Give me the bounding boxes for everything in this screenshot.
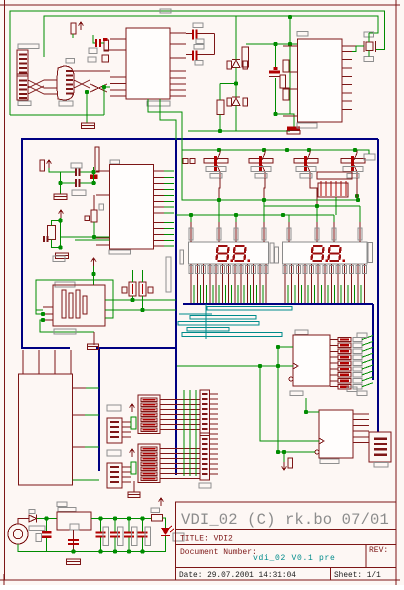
component label T3b: [300, 174, 312, 179]
display DIS1 top pin 2: [218, 222, 220, 242]
component label above C1: [193, 23, 203, 28]
wire green vert c3: [275, 44, 277, 67]
component pad right end: [364, 154, 375, 160]
page border corner overshoot top-left: [0, 4, 10, 6]
display DIS1 top pin 4: [263, 222, 265, 242]
transformer TR1 body: [19, 374, 73, 485]
display DIS1 dp 2: [248, 260, 251, 263]
connector SV2 label: [107, 450, 121, 456]
wire display DIS2 comb green 6: [320, 285, 322, 303]
node junction zener mid: [234, 81, 238, 85]
ic IC3 left pin 3: [96, 237, 110, 239]
connector SV3 bars: [374, 438, 387, 440]
wire RP2 row 6: [160, 473, 200, 475]
wire bus entry 1: [362, 336, 373, 340]
component pads far left: [183, 159, 188, 164]
node junction CF3 top: [127, 516, 131, 520]
node junction da6: [315, 204, 319, 208]
ic U1 right pin 5: [170, 77, 186, 79]
component pad out 3: [353, 349, 362, 353]
node junction rst2: [58, 245, 62, 249]
resistor R16 vertical: [217, 100, 224, 115]
wire top inner green line: [44, 16, 378, 57]
wire RP2 row 1: [160, 448, 200, 450]
header JP1 bars lower: [202, 438, 208, 440]
capacitor C2 plates: [192, 51, 194, 61]
bus teal box D: [187, 328, 229, 332]
transistor T2: [259, 150, 265, 178]
transistor T1: [214, 150, 220, 178]
display DIS1 bottom pin 6: [221, 264, 223, 303]
ic IC3 right pin 6: [154, 200, 165, 202]
resistor R12 vertical: [91, 210, 97, 222]
node junction rail: [218, 129, 222, 133]
ic IC4 out pin 5: [330, 362, 338, 364]
node junction clk start: [258, 364, 262, 368]
crystal Q2 pad above: [364, 32, 374, 37]
svg-text:VDI_02 (C) rk.bo 07/01: VDI_02 (C) rk.bo 07/01: [181, 511, 389, 529]
component U2 pin bar 2: [66, 75, 73, 77]
component label T2a: [251, 167, 271, 172]
display DIS2 bottom pin 6: [317, 264, 319, 303]
ic U3 right pin 2: [342, 59, 352, 61]
connector X1 label below: [18, 101, 31, 106]
connector SL1 inner bar 2: [69, 293, 73, 318]
ic IC3 label above: [110, 160, 120, 164]
connector SV2 bars: [110, 466, 119, 468]
connector X1 pin bar 7: [19, 84, 27, 86]
ic IC3 right pin 9: [154, 222, 165, 224]
node junction CF4 bottom: [140, 549, 144, 553]
wire R16 bottom: [219, 115, 221, 132]
resistor RN pack 4: [338, 355, 351, 359]
connector SV2 body: [107, 463, 122, 488]
resistor pack RP1 body: [138, 395, 160, 434]
ic IC3 right pin 3: [154, 183, 165, 185]
component label T1a: [206, 167, 226, 172]
node junction CF4 top: [140, 516, 144, 520]
diode D3 zener: [232, 59, 240, 61]
wire display DIS2 comb green 4: [307, 285, 309, 303]
component R11 vertical: [48, 226, 56, 240]
ic U1 right pin 3: [170, 57, 186, 59]
node junction pw2: [71, 549, 75, 553]
display side bar right: [368, 243, 373, 263]
wire display DIS1 comb green 4: [212, 285, 214, 303]
resistor RN pack 2: [338, 343, 351, 347]
wire RP1 row 2: [160, 404, 200, 406]
component U2 body: [57, 66, 74, 100]
capacitor C4 plates: [75, 168, 77, 176]
resistor pack RP2 r2: [141, 452, 157, 455]
node junction c3 bottom: [273, 112, 277, 116]
ic U1 left pin 4: [110, 83, 126, 85]
display DIS2 bottom pin 3: [297, 264, 299, 303]
frame blue right edge: [377, 139, 379, 432]
wire SV2 pins: [122, 466, 131, 468]
svg-text:TITLE: VDI2: TITLE: VDI2: [180, 535, 233, 544]
wire display DIS1 comb green 3: [206, 285, 208, 303]
ic U3 left pin 4: [283, 115, 298, 117]
connector SV1 body: [107, 418, 122, 443]
node junction q1a: [58, 181, 62, 185]
header JP1 bars: [202, 393, 208, 395]
regulator IC2 inner: [70, 524, 79, 530]
wire top outer green loop: [10, 11, 385, 115]
transistor T3: [304, 150, 310, 178]
wire RP2 row 7: [160, 478, 200, 480]
display DIS2 bottom pin 9: [337, 264, 339, 303]
wire bus entry 2: [362, 341, 373, 345]
component label above C2: [194, 45, 204, 50]
display DIS1 bottom pin 12: [259, 264, 261, 303]
regulator IC2 body: [57, 512, 91, 530]
wire g1 top: [18, 519, 29, 525]
node junction r12b: [92, 235, 96, 239]
resistor R15 label: [151, 508, 160, 513]
ic U1 right pin 6: [170, 83, 186, 85]
display DIS1 bottom pin 9: [240, 264, 242, 303]
wire display DIS2 comb green 5: [314, 285, 316, 303]
wire display DIS1 comb green 10: [249, 285, 251, 303]
resistor pack RP2 r1: [141, 447, 157, 450]
display DIS1 bottom pin 5: [215, 264, 217, 303]
resistor pack RP2 r4: [141, 462, 157, 465]
node junction r14: [140, 308, 144, 312]
connector SL1 label: [55, 282, 75, 287]
ic U3 right pin 6: [342, 92, 352, 94]
wire green top h: [246, 43, 297, 45]
component U2 pin bar 4: [66, 84, 73, 86]
display DIS2 bottom pin 1: [284, 264, 286, 303]
header JP1 body: [200, 390, 210, 480]
wire display DIS1 comb green 2: [199, 285, 201, 303]
ic IC3 right pin 5: [154, 194, 165, 196]
wire display DIS2 comb green 10: [347, 285, 349, 303]
wire crystal nets: [61, 171, 76, 173]
wire r13 top: [132, 270, 134, 282]
page border corner overshoot top-right: [390, 4, 400, 6]
wire reg gnd: [73, 530, 75, 552]
ic IC3 right pin 10: [154, 228, 165, 230]
resistor R18 vertical: [71, 23, 76, 34]
resistor R14 vertical: [139, 282, 146, 296]
title block line under big title: [176, 529, 397, 531]
crystal Q2 body: [366, 42, 373, 51]
display DIS1 bottom pin 2: [196, 264, 198, 303]
component label q1b: [72, 190, 86, 196]
node junction da3: [234, 213, 238, 217]
display DIS2 bottom pin 5: [311, 264, 313, 303]
node junction rail T3: [285, 148, 289, 152]
wire pad right: [355, 150, 369, 154]
resistor pack RP2 r7: [141, 477, 157, 480]
ic U1 right pin 7: [170, 89, 186, 91]
display DIS1 bottom pin 8: [234, 264, 236, 303]
ic IC4 inv bubble: [289, 377, 293, 381]
frame blue left box: [22, 139, 175, 348]
connector SV3 label: [374, 463, 388, 468]
ground GND6: [88, 344, 99, 350]
component R19 small square: [103, 38, 108, 41]
component label box: [89, 48, 97, 54]
ic IC3 right pin 8: [154, 212, 165, 214]
wire RP1 row 7: [160, 429, 200, 431]
connector SL1 label top: [53, 256, 65, 262]
ic U3 left pin 1: [283, 45, 298, 47]
bus teal box C: [178, 322, 259, 326]
capacitor C3: [269, 71, 280, 74]
bus teal vertical: [205, 304, 207, 339]
component pad out 6: [353, 367, 362, 371]
component CF1 label: [103, 527, 109, 546]
component U2 pin bar 6: [66, 93, 73, 95]
wire CF4: [142, 519, 144, 532]
wire CF2: [114, 519, 116, 532]
component label box2: [88, 57, 96, 62]
ic U3 right pin 1: [342, 51, 352, 53]
node junction q1b: [91, 170, 95, 174]
wire crossover b: [28, 80, 44, 88]
bus teal box B: [190, 316, 256, 320]
wire C1 row: [186, 33, 192, 35]
wire green rails mid: [61, 236, 110, 238]
capacitor C1 plates: [192, 30, 194, 40]
component pad out 5: [353, 361, 362, 365]
wire green to IC4 b: [177, 365, 293, 367]
wire display DIS1 comb green 5: [218, 285, 220, 303]
transformer TR1 pin right 0: [73, 387, 87, 389]
frame blue top right edge: [175, 138, 378, 140]
wire bus entry 9: [362, 383, 373, 387]
ic IC3 label below: [109, 250, 131, 254]
wire RP2 row 4: [160, 463, 200, 465]
resistor RB3: [294, 159, 318, 164]
transistor T4: [351, 150, 357, 178]
wire crystal connect: [368, 33, 370, 42]
connector X1 label: [18, 44, 39, 49]
wire U2b to U1: [104, 86, 110, 88]
resistor pack RP1 r5: [141, 418, 157, 421]
arrow gnd ic5: [282, 462, 287, 470]
connector X1 pin bar 6: [19, 80, 27, 82]
ground GND7: [128, 492, 140, 498]
ic IC4 out pin 4: [330, 356, 338, 358]
display side bar left: [180, 250, 184, 264]
resistor R17: [104, 40, 109, 51]
display side bar mid1: [270, 243, 274, 263]
ic IC5 right pin 4: [353, 430, 369, 432]
component pad D4 right: [243, 98, 248, 106]
wire display DIS2 comb green 1: [287, 285, 289, 303]
wire crossover c: [28, 86, 44, 94]
node junction da4: [262, 198, 266, 202]
wire tr down 2: [289, 44, 291, 114]
wire RP1 row 5: [160, 419, 200, 421]
svg-text:Date: 29.07.2001 14:31:04: Date: 29.07.2001 14:31:04: [179, 572, 296, 580]
wire bus entry 8: [362, 377, 373, 381]
ic IC3 right pin 11: [154, 233, 165, 235]
ac source G1 inner circle: [13, 529, 22, 538]
component label T1b: [210, 174, 222, 179]
capacitor CF4: [138, 532, 148, 534]
display DIS1 bottom pin 10: [246, 264, 248, 303]
display DIS2 bottom pin 10: [344, 264, 346, 303]
display DIS2 top pin 1: [288, 222, 290, 242]
ic IC3 right pin 7: [154, 206, 165, 208]
wire cap C7 stub: [93, 35, 95, 43]
component label below C2: [195, 61, 203, 66]
header JP1 divider: [200, 432, 210, 434]
display DIS1 bottom pin 1: [190, 264, 192, 303]
wire display DIS1 comb green 8: [237, 285, 239, 303]
node junction CF1 top: [98, 516, 102, 520]
node junction sl1: [91, 272, 95, 276]
display DIS2 digit 2: [329, 246, 341, 261]
display DIS2 digit 1: [312, 246, 324, 261]
ground GND4: [54, 194, 67, 200]
node junction pw1: [44, 516, 48, 520]
resistor network RN1 elements: [321, 181, 346, 196]
wire display DIS1 comb green 9: [243, 285, 245, 303]
bus teal line: [179, 313, 212, 315]
wire RP2 row 2: [160, 453, 200, 455]
component pad ic5gnd: [288, 458, 293, 468]
diode D4 zener: [232, 96, 240, 98]
ic IC4 out pin 9: [330, 386, 338, 388]
wire r15 to led: [163, 518, 166, 528]
ic IC4 body: [293, 335, 330, 386]
bus vertical main: [175, 139, 177, 475]
resistor pack RP2 r5: [141, 467, 157, 470]
wire C1 C2 join: [214, 34, 216, 55]
capacitor CF1: [96, 532, 106, 534]
connector X1 pin bar 2: [19, 58, 27, 60]
component U2 label above: [66, 59, 75, 64]
component pad extra top: [357, 333, 367, 338]
regulator IC2 label1: [57, 502, 67, 507]
ic IC4 out pin 3: [330, 350, 338, 352]
ic IC4 out pin 7: [330, 374, 338, 376]
capacitor C8 plates: [43, 236, 45, 242]
wire green ic5 clk: [260, 366, 319, 441]
connector SL1 inner bar 1: [62, 290, 66, 318]
wire drop p4: [263, 200, 265, 230]
supply arrow VCC3: [59, 210, 64, 218]
component U2 pin bar 3: [66, 79, 73, 81]
ic IC4 out pin 2: [330, 344, 338, 346]
wire c9: [46, 519, 48, 532]
ic U3 left pin 2: [283, 71, 298, 73]
ground GND8: [67, 559, 81, 565]
display DIS1 digit 1: [217, 246, 229, 261]
capacitor CF3: [124, 532, 134, 534]
ic IC3 right pin 12: [154, 239, 165, 241]
wire U1 left pin1: [104, 49, 110, 51]
node junction rail T4: [307, 148, 311, 152]
wire D4 down: [235, 106, 237, 132]
wire crossover a: [28, 80, 44, 88]
component label q1: [71, 163, 82, 168]
svg-text:REV:: REV:: [369, 546, 388, 555]
wire D3 top: [235, 16, 237, 60]
wire RP1 row 6: [160, 424, 200, 426]
wire R16 top: [220, 83, 236, 85]
wire D3 to D4: [235, 68, 237, 98]
wire display DIS2 comb green 9: [340, 285, 342, 303]
resistor pack RP2 r3: [141, 457, 157, 460]
display DIS2 top pin 2: [316, 222, 318, 242]
svg-text:Document Number:: Document Number:: [180, 548, 257, 557]
resistor RN pack 6: [338, 367, 351, 371]
ic IC5 right pin 1: [353, 413, 369, 415]
connector SL1 pins: [43, 306, 53, 308]
header JP1 right stubs: [210, 393, 219, 395]
ic IC3 left pin 4: [96, 244, 110, 246]
ic IC3 right pin 2: [154, 176, 165, 178]
wire crossover h: [90, 84, 107, 92]
wire display DIS1 comb green 12: [262, 285, 264, 303]
node junction da5: [281, 213, 285, 217]
node junction ic5b: [276, 450, 280, 454]
component U2 pin bar 5: [66, 88, 73, 90]
diode D1: [29, 515, 37, 522]
ic IC3 body: [110, 165, 154, 250]
wire T3 collector: [310, 178, 317, 206]
resistor R8 vertical: [283, 60, 289, 72]
capacitor C7 plates: [95, 39, 97, 47]
title block REV separator: [365, 545, 367, 568]
node junction tr: [288, 15, 292, 19]
ic IC5 right pin 6: [353, 442, 369, 444]
ic IC4 label above: [295, 330, 308, 335]
component pad extra bottom: [347, 387, 357, 392]
ic U3 right pin 4: [342, 75, 352, 77]
wire RP1 row 1: [160, 399, 200, 401]
wire display DIS1 comb green 6: [224, 285, 226, 303]
regulator IC2 label2: [58, 508, 76, 512]
ic U3 right pin 8: [342, 109, 352, 111]
component label T3a: [296, 167, 316, 172]
wire drop p7: [333, 215, 335, 230]
ic U1 left pin 1: [110, 38, 126, 40]
wire drop p3: [235, 215, 237, 230]
crystal Q1 body: [95, 147, 99, 172]
wire T4 collector: [356, 178, 358, 200]
resistor R4 vertical: [242, 47, 249, 67]
display DIS1 bottom pin 7: [228, 264, 230, 303]
resistor RN pack 7: [338, 373, 351, 377]
ic IC5 right pin 2: [353, 419, 369, 421]
node junction da2: [189, 213, 193, 217]
wire tr down: [289, 17, 291, 44]
ic IC5 inv bubble: [315, 450, 319, 454]
ic U3 label below: [297, 123, 317, 128]
wire gnd7 stem: [133, 481, 135, 492]
ic U3 body: [298, 39, 343, 122]
bus horizontal displays: [183, 303, 373, 305]
component U2 pin bar 1: [66, 70, 73, 72]
title block line under TITLE row: [176, 544, 397, 546]
resistor pack RP1 r4: [141, 413, 157, 416]
wire display DIS1 comb green 11: [256, 285, 258, 303]
ic IC3 right pin 4: [154, 189, 165, 191]
ic U3 right pin 3: [342, 67, 352, 69]
wire U2 out 1: [74, 70, 110, 72]
ic U1 label below: [147, 101, 170, 106]
supply arrow VCC1: [79, 22, 84, 30]
node junction da1: [217, 198, 221, 202]
